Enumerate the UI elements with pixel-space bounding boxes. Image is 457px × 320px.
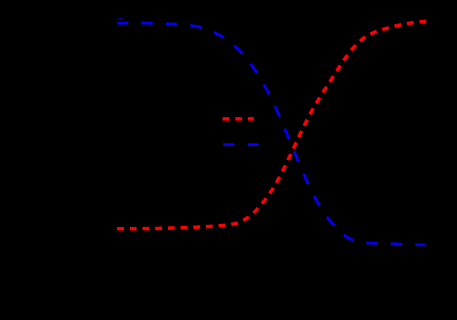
legend red dotted sample: [223, 117, 254, 121]
legend blue dashed sample: [223, 143, 258, 146]
blue dashed curve (falling sigmoid): [117, 23, 425, 245]
thin blue line fragment at curve start: [117, 18, 123, 20]
red dotted curve (rising sigmoid): [117, 21, 426, 228]
